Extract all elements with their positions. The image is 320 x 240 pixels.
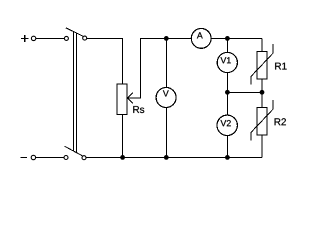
- wire: [226, 92, 228, 115]
- switch S1a right contact: [83, 36, 87, 40]
- minus terminal label: [20, 157, 27, 159]
- terminal -: [31, 155, 35, 159]
- wire middle rail: [227, 91, 262, 93]
- wire: [226, 73, 228, 93]
- plus terminal label: [21, 35, 28, 42]
- switch S1a left contact: [64, 36, 68, 40]
- node wiper-rail junction: [164, 36, 169, 41]
- resistor R1: [251, 44, 273, 85]
- label V2: [221, 120, 231, 126]
- wire: [261, 38, 263, 51]
- wire: [226, 38, 228, 52]
- label R1: [275, 63, 286, 70]
- wire: [226, 136, 228, 158]
- terminal +: [31, 36, 35, 40]
- wire: [36, 37, 64, 39]
- switch linkage: [73, 31, 76, 152]
- resistor Rs: [117, 84, 127, 115]
- wire: [165, 38, 167, 87]
- wire: [261, 79, 263, 92]
- wire: [261, 92, 263, 107]
- label R2: [275, 118, 286, 125]
- wire bottom rail: [86, 157, 262, 159]
- switch S1b blade: [65, 146, 83, 156]
- node V2-bottom: [225, 155, 230, 160]
- label A: [197, 32, 203, 38]
- wire: [165, 108, 167, 158]
- switch S1b right contact: [82, 156, 86, 160]
- ammeter A: [191, 29, 211, 49]
- label V: [163, 90, 169, 96]
- wire: [211, 37, 262, 39]
- voltmeter V2: [217, 115, 237, 135]
- node top junction: [225, 36, 230, 41]
- node middle right: [260, 90, 265, 95]
- switch S1a blade: [66, 28, 83, 36]
- wire: [122, 115, 124, 158]
- voltmeter V: [156, 88, 176, 108]
- wire: [36, 157, 64, 159]
- node V-bottom: [164, 155, 169, 160]
- node middle left: [225, 90, 230, 95]
- label Rs: [133, 106, 144, 113]
- switch S1b left contact: [64, 156, 68, 160]
- wire: [87, 38, 123, 84]
- node Rs-bottom: [120, 155, 125, 160]
- voltmeter V1: [217, 52, 237, 72]
- resistor R2: [251, 100, 273, 141]
- Rs wiper arrow: [127, 38, 191, 103]
- label V1: [221, 57, 231, 63]
- wire: [261, 135, 263, 157]
